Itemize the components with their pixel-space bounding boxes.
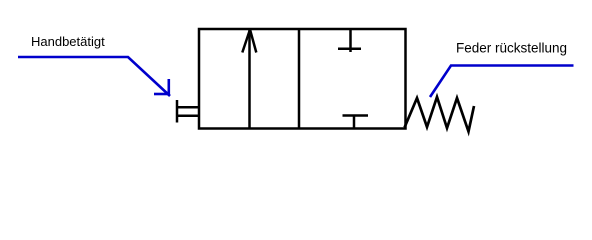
wire blue leader line (spring callout)	[430, 66, 574, 98]
wire divider between positions	[298, 29, 301, 129]
valve body (2-position box)	[199, 29, 406, 129]
wire blue leader arrow (manual actuator callout)	[18, 57, 170, 96]
flow arrow (left chamber, pass symbol)	[242, 30, 256, 129]
svg-text:Handbetätigt: Handbetätigt	[31, 34, 105, 49]
blocked port T (top, right chamber)	[338, 29, 361, 52]
manual actuator (push button)	[177, 100, 199, 123]
blocked port T (bottom, right chamber)	[343, 116, 369, 129]
svg-text:Feder rückstellung: Feder rückstellung	[456, 41, 567, 56]
spring return (zigzag)	[405, 97, 475, 132]
